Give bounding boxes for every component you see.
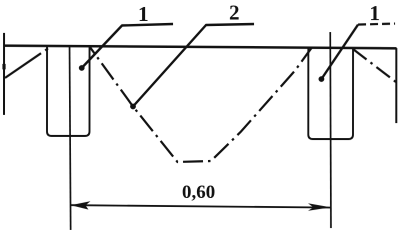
svg-text:2: 2 bbox=[229, 0, 240, 24]
svg-text:0,60: 0,60 bbox=[182, 182, 215, 203]
svg-text:1: 1 bbox=[369, 1, 380, 25]
svg-text:1: 1 bbox=[138, 2, 149, 26]
